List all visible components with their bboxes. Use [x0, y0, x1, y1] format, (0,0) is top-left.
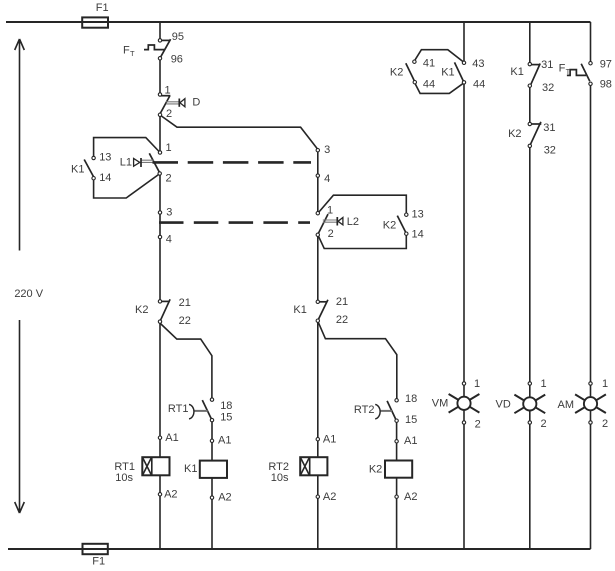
- timed contact RT2 15-18 blade: [387, 401, 396, 420]
- terminal circles FT 97-98: [589, 62, 592, 86]
- pin label A2 (left branch): [164, 488, 177, 500]
- contact K2 41-44 bypass loop wiring: [414, 50, 464, 94]
- terminal circles K2 coil branch: [395, 399, 398, 499]
- svg-text:97: 97: [600, 58, 612, 70]
- svg-text:VD: VD: [496, 398, 511, 410]
- terminal circles lamps: [462, 382, 592, 424]
- svg-text:95: 95: [172, 31, 184, 43]
- pin label 2 (L2): [328, 228, 334, 240]
- label FT (right): [559, 63, 571, 76]
- svg-text:A2: A2: [404, 491, 417, 503]
- thermal NC contact FT 95-96: [144, 39, 171, 57]
- svg-text:15: 15: [220, 412, 232, 424]
- signal lamp VD: [514, 395, 545, 414]
- svg-text:32: 32: [544, 144, 556, 156]
- latch symbol L1: [134, 158, 154, 167]
- latch symbol L2: [323, 217, 343, 226]
- svg-text:4: 4: [166, 233, 172, 245]
- svg-text:14: 14: [99, 172, 111, 184]
- latch contact D pins 1-2 (closed): [160, 96, 171, 115]
- svg-text:VM: VM: [432, 398, 449, 410]
- pin label 44 (K1): [473, 79, 485, 91]
- contact K1 43-44 blade: [455, 62, 464, 81]
- label F1 (bottom fuse): [92, 556, 105, 568]
- wire: branch K2 pin 22 to RT1 contact pin 18: [160, 324, 212, 400]
- svg-text:D: D: [192, 97, 200, 109]
- svg-text:1: 1: [166, 142, 172, 154]
- svg-text:32: 32: [542, 82, 554, 94]
- svg-text:2: 2: [328, 228, 334, 240]
- terminal circles K2 13-14: [405, 213, 408, 235]
- svg-text:A2: A2: [218, 492, 231, 504]
- label 220 V: [14, 288, 43, 300]
- svg-text:1: 1: [541, 378, 547, 390]
- svg-text:F1: F1: [92, 556, 105, 568]
- contact K1 13-14 blade: [84, 160, 94, 178]
- signal lamp AM: [575, 394, 606, 413]
- svg-text:2: 2: [166, 108, 172, 120]
- label RT1 (coil): [114, 461, 135, 473]
- svg-text:18: 18: [220, 400, 232, 412]
- svg-text:98: 98: [600, 78, 612, 90]
- pin label 2 (AM): [602, 418, 608, 430]
- pin label 13 (K1): [99, 152, 111, 164]
- svg-text:F1: F1: [96, 2, 109, 14]
- svg-text:22: 22: [336, 314, 348, 326]
- fuse F1 (top): [82, 17, 108, 27]
- pin label 22 (K2): [179, 315, 191, 327]
- terminal circles column 2: [316, 149, 319, 499]
- svg-text:L2: L2: [347, 216, 359, 228]
- pin label 1 (L2): [327, 205, 333, 217]
- contact K2 31-32 (NC): [530, 122, 542, 145]
- pin label 21 (K2): [179, 297, 191, 309]
- svg-text:RT2: RT2: [354, 404, 375, 416]
- pin label 96: [171, 54, 183, 66]
- pin label A2 (RT2 branch): [323, 491, 336, 503]
- label L2: [347, 216, 359, 228]
- svg-text:1: 1: [474, 378, 480, 390]
- thermal NO contact FT 97-98: [567, 64, 590, 81]
- pin label A2 (K2 coil): [404, 491, 417, 503]
- pin label 31 (K1): [541, 59, 553, 71]
- wire: top rail to K1 pin 43: [463, 22, 465, 63]
- relay coil K1: [200, 461, 227, 478]
- svg-text:1: 1: [327, 205, 333, 217]
- svg-text:2: 2: [166, 173, 172, 185]
- label K1 (coil): [184, 463, 197, 475]
- wire: D pin 2 down to L1 pin 1: [159, 115, 161, 153]
- pin label 3 (left): [166, 206, 172, 218]
- svg-text:K1: K1: [184, 463, 197, 475]
- svg-text:A1: A1: [404, 435, 417, 447]
- label AM: [558, 399, 575, 411]
- timer coil RT2: [300, 457, 327, 475]
- pin label 14 (K2): [412, 229, 424, 241]
- label F1 (top fuse): [96, 2, 109, 14]
- svg-text:4: 4: [324, 173, 330, 185]
- wire: FT 96 to D contact pin 1: [159, 58, 161, 94]
- pin label 3 (right): [324, 144, 330, 156]
- timing symbol RT2: [375, 404, 392, 419]
- pin label 4 (left): [166, 233, 172, 245]
- svg-text:3: 3: [166, 206, 172, 218]
- svg-text:41: 41: [423, 58, 435, 70]
- pin label 2 (L1): [166, 173, 172, 185]
- svg-text:K1: K1: [293, 304, 306, 316]
- pin label 44 (K2): [423, 79, 435, 91]
- value label 10s (RT2): [271, 472, 289, 484]
- pin label 2 (D): [166, 108, 172, 120]
- pin label 18 (RT2): [405, 393, 417, 405]
- svg-text:K2: K2: [383, 220, 396, 232]
- contact K2 41-44 blade: [406, 63, 415, 81]
- pin label A2 (K1 coil): [218, 492, 231, 504]
- svg-text:T: T: [130, 49, 135, 58]
- contact K1 21-22 (NC): [318, 300, 328, 320]
- svg-text:2: 2: [475, 419, 481, 431]
- svg-text:K1: K1: [71, 164, 84, 176]
- latch contact L2 pins 1-2 blade (open): [318, 214, 328, 234]
- label VM: [432, 398, 449, 410]
- bottom supply rail: [8, 548, 591, 550]
- pin label 13 (K2): [412, 209, 424, 221]
- pin label 95: [172, 31, 184, 43]
- contact K1 31-32 (NC): [530, 64, 540, 86]
- pin label A1 (K2 coil): [404, 435, 417, 447]
- svg-text:10s: 10s: [271, 472, 289, 484]
- pin label 22 (K1): [336, 314, 348, 326]
- svg-text:14: 14: [412, 229, 424, 241]
- svg-text:A1: A1: [323, 434, 336, 446]
- top supply rail: [6, 21, 591, 23]
- wire: FT pin 98 down to lamp AM: [590, 84, 592, 549]
- label RT1 (timed contact): [168, 403, 189, 415]
- svg-text:1: 1: [602, 378, 608, 390]
- wire: RT1 coil A2 to bottom rail: [159, 475, 161, 549]
- svg-text:T: T: [566, 67, 571, 76]
- wire: RT1 contact pin 15 to K1 coil A1: [211, 420, 213, 461]
- fuse F1 (bottom): [83, 544, 108, 554]
- terminal circles column VD contacts: [528, 62, 531, 147]
- pin label 41: [423, 58, 435, 70]
- svg-text:A2: A2: [323, 491, 336, 503]
- terminal circles K1 coil branch: [210, 398, 213, 499]
- pin label 1 (VM): [474, 378, 480, 390]
- wire: RT2 contact pin 15 to K2 coil A1: [396, 421, 398, 461]
- svg-text:RT1: RT1: [168, 403, 189, 415]
- pin label 43: [472, 58, 484, 70]
- wire: K1 pin 22 down to RT2 coil: [317, 321, 319, 458]
- svg-text:2: 2: [602, 418, 608, 430]
- label K2 (coil): [369, 464, 382, 476]
- label VD: [496, 398, 511, 410]
- wire: K2 coil A2 to bottom rail: [396, 478, 398, 549]
- contact K1 13-14 bypass loop wiring: [94, 138, 160, 198]
- contact K2 13-14 blade: [397, 216, 406, 233]
- svg-text:K2: K2: [390, 66, 403, 78]
- svg-text:L1: L1: [120, 157, 132, 169]
- pin label 98: [600, 78, 612, 90]
- wire: K1 pin 44 down to lamp VM: [463, 82, 465, 549]
- label RT2 (coil): [268, 461, 289, 473]
- pin label 21 (K1): [336, 296, 348, 308]
- svg-text:F: F: [559, 63, 566, 75]
- svg-text:AM: AM: [558, 399, 575, 411]
- svg-text:K1: K1: [441, 66, 454, 78]
- svg-text:220 V: 220 V: [14, 288, 43, 300]
- pin label A1 (left branch): [165, 432, 178, 444]
- wire: top rail right end down to FT pin 97: [590, 22, 592, 63]
- label K2 (31-32): [508, 128, 521, 140]
- wire: K1 coil A2 to bottom rail: [211, 478, 213, 549]
- svg-text:21: 21: [336, 296, 348, 308]
- svg-text:15: 15: [405, 414, 417, 426]
- value label 10s (RT1): [115, 472, 133, 484]
- svg-text:43: 43: [472, 58, 484, 70]
- pin label A1 (K1 coil): [218, 435, 231, 447]
- svg-text:31: 31: [541, 59, 553, 71]
- svg-text:31: 31: [543, 122, 555, 134]
- svg-text:K2: K2: [135, 304, 148, 316]
- wire: K2 pin 32 down to lamp VD: [529, 146, 531, 549]
- svg-text:F: F: [123, 45, 130, 57]
- contact K2 21-22 (NC): [160, 299, 170, 320]
- timer coil RT1: [142, 457, 169, 475]
- pin label A1 (RT2 branch): [323, 434, 336, 446]
- wire: L2 pin 2 down to K1 pin 21: [317, 235, 319, 302]
- wire: RT2 coil A2 to bottom rail: [317, 475, 319, 549]
- svg-text:44: 44: [473, 79, 485, 91]
- svg-text:13: 13: [99, 152, 111, 164]
- pin label 4 (right): [324, 173, 330, 185]
- pin label 32 (K2): [544, 144, 556, 156]
- wire: K2 pin 22 down to RT1 coil: [159, 322, 161, 458]
- relay coil K2: [385, 461, 412, 478]
- wire: top rail to FT terminal 95: [159, 22, 161, 40]
- wire: L1 pin 2 through closed contact 3-4 down to K2 pin 21: [159, 174, 161, 302]
- svg-text:K2: K2: [508, 128, 521, 140]
- label FT (left): [123, 45, 135, 58]
- svg-text:18: 18: [405, 393, 417, 405]
- svg-text:A1: A1: [165, 432, 178, 444]
- pin label 1 (AM): [602, 378, 608, 390]
- label K2 (13-14): [383, 220, 396, 232]
- mechanical link dashed line L1 to right contact 3-4: [153, 161, 312, 164]
- svg-text:44: 44: [423, 79, 435, 91]
- pin label 15 (RT1): [220, 412, 232, 424]
- svg-text:13: 13: [412, 209, 424, 221]
- terminal circles column 1: [158, 39, 162, 496]
- svg-text:K1: K1: [510, 66, 523, 78]
- label K2 (21-22): [135, 304, 148, 316]
- pin label 14 (K1): [99, 172, 111, 184]
- label L1: [120, 157, 132, 169]
- terminal circles K1 13-14: [92, 156, 95, 180]
- svg-text:10s: 10s: [115, 472, 133, 484]
- pin label 18 (RT1): [220, 400, 232, 412]
- svg-text:1: 1: [165, 84, 171, 96]
- pin label 1 (VD): [541, 378, 547, 390]
- latch symbol D: [166, 99, 185, 107]
- pin label 2 (VD): [541, 418, 547, 430]
- pin label 1 (L1): [166, 142, 172, 154]
- label D: [192, 97, 200, 109]
- wire: right column node 3 through closed contact 3-4 to L2 pin 1: [317, 150, 319, 213]
- pin label 31 (K2): [543, 122, 555, 134]
- pin label 15 (RT2): [405, 414, 417, 426]
- svg-text:A1: A1: [218, 435, 231, 447]
- svg-text:3: 3: [324, 144, 330, 156]
- terminal circles contacts 41-44 43-44: [413, 60, 466, 84]
- svg-text:22: 22: [179, 315, 191, 327]
- svg-text:96: 96: [171, 54, 183, 66]
- label K1 (43-44): [441, 66, 454, 78]
- svg-text:K2: K2: [369, 464, 382, 476]
- latch contact L1 pins 1-2 blade (open): [149, 153, 159, 173]
- wire: branch K1 pin 22 to RT2 contact pin 18: [318, 322, 397, 400]
- pin label 1 (D): [165, 84, 171, 96]
- mechanical link dashed line left contact 3-4 to L2: [159, 221, 310, 224]
- pin label 2 (VM): [475, 419, 481, 431]
- pin label 97: [600, 58, 612, 70]
- voltage span arrow: [15, 39, 25, 513]
- timing symbol RT1: [189, 404, 208, 419]
- label K1 (31-32): [510, 66, 523, 78]
- label RT2 (timed contact): [354, 404, 375, 416]
- wire: K1 pin 32 to K2 pin 31: [529, 86, 531, 124]
- timed contact RT1 15-18 blade: [202, 400, 211, 419]
- label K1 (13-14): [71, 164, 84, 176]
- signal lamp VM: [449, 394, 480, 413]
- wire: D pin 2 branch to right column node 3: [160, 115, 318, 149]
- label K2 (41-44): [390, 66, 403, 78]
- wire: top rail to K1 pin 31: [529, 22, 531, 64]
- contact K2 13-14 bypass loop wiring: [318, 195, 406, 248]
- pin label 32 (K1): [542, 82, 554, 94]
- svg-text:A2: A2: [164, 488, 177, 500]
- label K1 (21-22): [293, 304, 306, 316]
- svg-text:21: 21: [179, 297, 191, 309]
- svg-text:2: 2: [541, 418, 547, 430]
